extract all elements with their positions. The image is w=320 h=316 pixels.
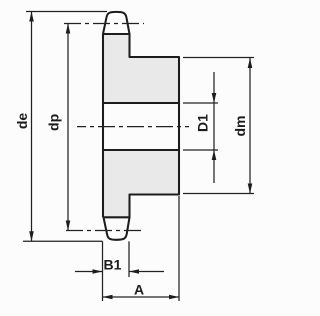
hub upper gray section [130,57,180,103]
dimension line B1 left arrow [75,271,103,273]
B1 right extension line [128,241,130,277]
svg-text:A: A [134,282,144,298]
top tooth root line [103,33,130,35]
svg-text:dp: dp [46,114,62,131]
bore top line [103,102,179,104]
svg-text:de: de [14,113,30,130]
dimension line dp [67,24,69,231]
top pitch dashed line [64,23,144,25]
dimension line B1 right arrow [129,271,164,273]
A right extension line [178,196,180,301]
bottom pitch dashed line [66,230,144,232]
horizontal centerline (dash-dot) [77,126,189,128]
bore bottom line [103,149,179,151]
hub lower gray section [130,150,180,195]
svg-text:dm: dm [232,116,248,137]
dimension line A [103,296,180,298]
svg-text:D1: D1 [195,114,211,132]
dm top extension line [183,57,254,59]
bore bottom extension line [183,149,218,151]
sprocket rim lower gray section [103,150,130,217]
bore top extension line [183,102,218,104]
B1 left extension line (shared with A) [102,241,104,301]
bottom tooth root line [103,216,130,218]
de bottom extension line [23,240,103,242]
de top extension line [26,11,107,13]
sprocket body outline with top tooth, hub step and bottom tooth [103,12,179,240]
dimension line de [31,12,33,242]
dimension line dm [249,58,251,194]
svg-text:B1: B1 [104,257,122,273]
dimension line D1 [213,72,215,183]
dm bottom extension line [183,193,254,195]
sprocket rim upper gray section [103,34,130,103]
